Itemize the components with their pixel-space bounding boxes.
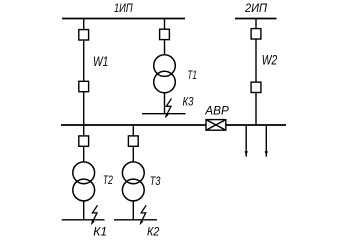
svg-text:W2: W2 (262, 52, 278, 67)
breaker on W1 upper (79, 30, 89, 40)
svg-text:Т2: Т2 (103, 173, 113, 187)
fault marker K3 (165, 99, 172, 119)
node T3 terminal (114, 219, 157, 221)
breaker on T1 (160, 29, 170, 39)
breaker on W1 lower (79, 81, 89, 91)
bus 1ИП (62, 18, 185, 20)
load arrow 2 (265, 125, 268, 157)
bus 2ИП (235, 18, 277, 20)
wire W1 feeder (83, 19, 85, 126)
load arrow 1 (245, 125, 248, 157)
wire T3 primary (132, 125, 134, 163)
wire T2 primary (83, 125, 85, 163)
wire W2 feeder (255, 19, 257, 126)
breaker on T2 (79, 136, 89, 146)
svg-text:К2: К2 (147, 224, 159, 238)
svg-text:W1: W1 (93, 54, 108, 69)
wire T1 feeder (164, 19, 166, 56)
transformer T2 (73, 162, 95, 201)
transformer T3 (122, 162, 144, 201)
svg-text:АВР: АВР (204, 104, 229, 117)
svg-text:1ИП: 1ИП (114, 1, 133, 15)
node T1 terminal (142, 113, 186, 115)
fault marker K1 (91, 205, 98, 225)
breaker on T3 (128, 136, 138, 146)
wire T1 secondary (164, 93, 166, 114)
svg-text:Т1: Т1 (187, 68, 197, 82)
svg-text:2ИП: 2ИП (244, 1, 267, 15)
bus middle right segment (226, 124, 286, 126)
switch АВР box (206, 120, 226, 131)
svg-text:К1: К1 (93, 224, 107, 238)
svg-text:Т3: Т3 (150, 174, 161, 188)
fault marker K2 (140, 205, 147, 225)
svg-text:К3: К3 (183, 95, 194, 109)
wire T3 secondary (132, 201, 134, 220)
bus middle left segment (61, 124, 206, 126)
transformer T1 (154, 55, 176, 93)
breaker on W2 lower (251, 82, 261, 92)
wire T2 secondary (83, 201, 85, 220)
node T2 terminal (62, 219, 105, 221)
breaker on W2 upper (251, 29, 261, 39)
